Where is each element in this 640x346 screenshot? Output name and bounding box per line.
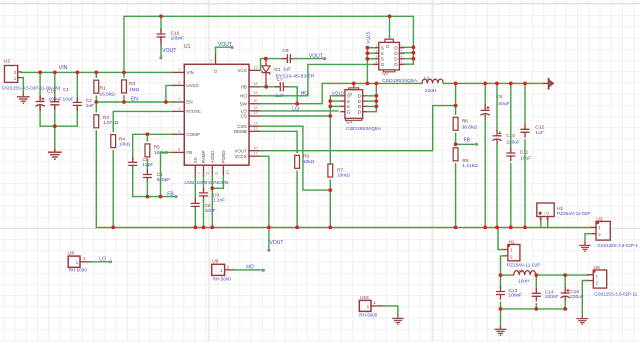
wire H2 pin1 to VOUT rail [498,227,503,249]
wire Q2 drain tab riser [389,16,391,39]
svg-text:FB: FB [464,138,471,144]
wire DEMB net to R6 [261,131,298,152]
junction [210,226,214,230]
svg-text:4: 4 [376,61,378,65]
svg-text:100nF: 100nF [545,294,559,300]
svg-text:2: 2 [376,50,378,54]
capacitor C5 12pF [132,158,134,163]
ground input bus [48,149,62,159]
svg-text:S: S [381,51,384,57]
capacitor C13 100nF [500,275,502,287]
svg-text:560pF: 560pF [157,177,171,183]
svg-text:1MΩ: 1MΩ [129,87,140,93]
junction [159,195,163,199]
svg-text:PZ254V-11-02P: PZ254V-11-02P [557,211,591,216]
capacitor C15 220uF [564,275,566,288]
svg-text:1.07kΩ: 1.07kΩ [103,120,119,126]
svg-text:2: 2 [596,280,599,285]
svg-text:VOUT: VOUT [309,54,323,60]
svg-text:1uF: 1uF [535,130,543,136]
svg-text:D: D [394,62,398,68]
svg-text:HO: HO [240,93,247,98]
svg-text:1: 1 [367,304,370,309]
inductor L2 22uH [422,79,443,83]
junction [295,102,299,106]
junction [495,226,499,230]
port VOUT below rail [268,227,270,250]
wire U3 pin2 to ground [585,234,592,242]
svg-text:1 M: 1 M [543,212,549,216]
svg-text:R2: R2 [103,115,109,121]
junction [375,105,379,109]
junction [94,100,98,104]
wire H1 pins to rail [541,222,548,228]
wire Q2 drain pin connections [404,47,414,64]
svg-text:2: 2 [178,81,180,85]
svg-text:1uF: 1uF [86,103,94,109]
svg-text:D: D [213,70,218,73]
svg-text:5: 5 [401,61,403,65]
junction [159,14,163,18]
junction [164,100,168,104]
transistor Q2 CSD19534Q5A high-side [385,39,393,42]
svg-text:10: 10 [253,146,257,150]
wire CS net to Q1 source bus [261,115,331,117]
svg-text:100uF: 100uF [496,101,510,107]
svg-text:G: G [347,110,351,116]
svg-text:5: 5 [205,172,210,174]
wire C8 to VOUT port [293,58,325,60]
wire COMP net [133,134,174,160]
wire CSG net to R7 bottom [261,126,331,190]
svg-text:U2: U2 [4,59,10,65]
capacitor C8 1uF [283,58,288,60]
svg-text:PGND: PGND [221,151,226,164]
wire VIN riser and top rail to Q2 drain bus [124,16,413,72]
svg-text:R9: R9 [462,158,468,164]
svg-text:1: 1 [376,44,378,48]
junction [454,142,458,146]
ground U3 [579,242,591,251]
junction [499,273,503,277]
port dot [323,57,326,60]
junction [146,195,150,199]
junction [328,105,332,109]
svg-text:2: 2 [598,232,601,237]
junction [483,226,487,230]
svg-text:GS0125S-3.5-02P-11: GS0125S-3.5-02P-11 [594,291,637,296]
svg-text:RH-5000: RH-5000 [359,312,378,317]
svg-text:D: D [358,94,362,100]
svg-text:R5: R5 [154,144,160,150]
wire EN net R1/R2 junction to U1 [96,101,173,103]
svg-text:D: D [385,45,390,48]
wire FB stub with port [456,143,477,145]
svg-text:7: 7 [209,59,214,61]
svg-text:1: 1 [596,273,599,278]
wire stem filter ground [500,309,502,326]
wire SW net [261,83,423,103]
wire C19 input cap drop [39,72,41,126]
svg-text:D: D [348,92,353,95]
connector U5 GS0125S aux [593,270,606,288]
wire Q1 drain tab to SW [353,83,355,88]
svg-text:D: D [358,99,362,105]
junction [366,46,370,50]
capacitor C1 10uF [54,97,56,102]
wire C1 input cap drop [54,72,56,126]
svg-text:10uF: 10uF [63,96,74,102]
inductor U4 10uH [514,271,536,275]
svg-text:FB: FB [167,192,174,198]
svg-text:30.5kΩ: 30.5kΩ [462,125,478,131]
wire input ground bus [40,125,77,127]
junction [267,226,271,230]
port dot [109,260,112,263]
junction [75,71,79,75]
ground U16 [392,315,404,324]
junction [264,57,268,61]
svg-text:U8: U8 [68,250,74,256]
junction [375,99,379,103]
port arrow VOUT output [543,82,548,84]
wire U9 to HO port [235,269,263,271]
wire U1 top pin to VOUT port [216,47,232,54]
junction [388,14,392,18]
junction [202,226,206,230]
junction [366,57,370,61]
svg-text:LM5116MHX/NOPB: LM5116MHX/NOPB [184,180,228,185]
capacitor C3 1.1nF ramp [203,176,205,190]
wire U2 pin1 to ground [21,78,23,94]
junction [495,82,499,86]
svg-text:GS0125S-3.5-02P-11-00A(N): GS0125S-3.5-02P-11-00A(N) [2,85,61,90]
svg-text:3: 3 [178,107,180,111]
svg-text:2: 2 [510,254,513,259]
svg-text:C8: C8 [282,48,288,54]
port dot [267,249,270,252]
svg-text:C1: C1 [63,87,69,93]
svg-text:1: 1 [539,217,541,221]
wire Q1 source bus to R7 [330,96,340,164]
junction [523,82,527,86]
wire L2 output to R8 node [455,83,457,105]
svg-text:R1: R1 [100,85,106,91]
port dot [159,56,162,59]
svg-text:UVLO: UVLO [186,83,199,88]
svg-text:D: D [358,104,362,110]
junction [210,186,214,190]
test point U9 RH-5000 HO [212,264,225,275]
wire RT/SYNC to R4 [113,111,173,131]
junction [454,226,458,230]
capacitor C10 220uF [496,83,498,130]
svg-text:VOUT: VOUT [218,42,232,48]
svg-text:10kΩ: 10kΩ [119,142,131,148]
connector H2 PZ254V-11-02P [508,245,520,261]
junction [328,114,332,118]
wire VCC riser [261,59,285,71]
resistor R2 1.07k [95,102,97,112]
svg-text:SS: SS [193,157,198,163]
capacitor C7 1uF bootstrap [276,86,281,88]
wire HO net to Q2 gate [261,64,377,95]
svg-text:11: 11 [254,127,258,131]
svg-text:100nF: 100nF [171,36,185,42]
junction [509,82,513,86]
test point U8 RH-5000 LO [68,256,80,267]
svg-text:16.5kΩ: 16.5kΩ [100,91,116,97]
junction [509,226,513,230]
svg-text:VOUT: VOUT [270,240,284,246]
svg-text:G: G [381,62,385,68]
junction [412,57,416,61]
svg-text:1: 1 [510,247,513,252]
svg-text:VQ2S: VQ2S [365,31,370,43]
wire VOUT rail after L2 [443,82,543,84]
svg-text:VIN: VIN [186,70,194,75]
wire H2 pin2 to filter [501,256,503,275]
svg-text:D: D [394,46,398,52]
svg-text:SW: SW [240,101,248,106]
junction [328,188,332,192]
svg-text:7: 7 [197,172,202,174]
svg-text:RH-5000: RH-5000 [69,268,88,273]
resistor R6 10k [295,155,300,168]
svg-text:1.1nF: 1.1nF [213,198,225,204]
svg-text:CSD19534Q5A: CSD19534Q5A [382,78,418,83]
capacitor C11 10uF [510,83,512,148]
svg-text:D: D [394,51,398,57]
svg-text:COMP: COMP [186,132,200,137]
svg-text:8: 8 [401,44,403,48]
svg-text:HO: HO [301,91,309,97]
resistor R3 1M [123,72,125,77]
wire U16 to ground [383,306,398,315]
test point U16 RH-5000 ground [359,300,371,311]
wire HB net [261,86,278,88]
wire PGND to AGND [212,176,223,188]
resistor R8 30.5k [455,106,457,115]
junction [352,82,356,86]
svg-text:22uH: 22uH [425,88,437,94]
svg-text:PZ254V-11-02P: PZ254V-11-02P [507,263,541,268]
junction [366,82,370,86]
svg-text:100nF: 100nF [509,293,523,299]
wire VOUT sense from U1 pin 10 to L2 output [261,106,456,151]
junction [122,71,126,75]
resistor R5 160k [146,134,148,141]
junction [264,85,268,89]
junction [454,104,458,108]
junction [94,71,98,75]
svg-text:CSD19534Q5A: CSD19534Q5A [346,126,382,131]
junction [593,270,596,273]
svg-text:C12: C12 [535,125,544,131]
wire Q1 drain bus to SW [367,83,377,111]
svg-text:220uF: 220uF [506,139,520,145]
svg-text:10uH: 10uH [518,278,530,284]
svg-text:RAMP: RAMP [201,150,206,163]
svg-text:20: 20 [253,99,257,103]
svg-text:8: 8 [178,148,180,152]
svg-text:C3: C3 [213,192,219,198]
capacitor C14 100nF [535,275,537,289]
junction [523,226,527,230]
junction [53,71,57,75]
wire VOUT bottom rail [96,226,591,228]
svg-text:HB: HB [241,84,247,89]
junction [375,82,379,86]
svg-text:9: 9 [178,130,180,134]
svg-text:10nF: 10nF [205,208,216,214]
junction [483,82,487,86]
svg-text:10kΩ: 10kΩ [303,159,315,165]
svg-text:VIN: VIN [59,65,68,71]
wire stem to input ground [54,126,56,149]
op-amp U1 LM5116MHX/NOPB controller [184,64,249,165]
wire FB comp bottom bus [133,196,176,198]
diode D1 BYS10-45-83/TR [265,59,267,66]
wire VCCX to VOUT rail [261,156,269,227]
capacitor C9 100uF [484,83,486,105]
transistor Q1 CSD19534Q5A low-side [349,88,359,90]
junction [499,307,503,311]
svg-text:R4: R4 [119,136,125,142]
wire LO net to Q1 gate [261,110,339,112]
svg-text:VCCX: VCCX [234,154,247,159]
port dot [231,46,234,49]
wire U8 to LO port [91,261,110,263]
junction [412,45,416,49]
svg-text:VQ1S: VQ1S [332,91,344,96]
wire Q2 source bus to SW [367,48,374,84]
svg-text:CS: CS [241,114,247,119]
wire UVLO to EN [166,85,173,102]
wire C7 to SW [286,87,297,104]
svg-text:DEMB: DEMB [234,129,247,134]
port dot [262,269,265,272]
capacitor C19 100uF [39,96,41,101]
wire VIN rail from U2 to U1 pin 1 [21,71,173,73]
junction [193,226,197,230]
capacitor C2 1uF [76,98,78,103]
wire U5 pin2 to ground [582,281,587,316]
svg-text:S: S [347,104,350,110]
svg-text:C11: C11 [520,150,529,156]
svg-text:12: 12 [253,111,257,115]
svg-text:Q2: Q2 [382,71,389,77]
svg-text:S: S [381,46,384,52]
svg-text:R3: R3 [129,81,135,87]
svg-text:4: 4 [178,97,180,101]
svg-text:17: 17 [253,151,257,155]
junction [146,132,150,136]
connector U2 GS0125S [5,66,18,83]
port dot [475,143,478,146]
svg-text:6: 6 [401,55,403,59]
junction [563,273,567,277]
svg-text:L2: L2 [424,76,430,82]
wire filter ground bus [501,308,566,310]
capacitor C12 1uF [524,83,526,124]
svg-text:C7: C7 [277,77,283,83]
svg-text:3: 3 [376,55,378,59]
svg-text:7: 7 [401,50,403,54]
svg-text:GS0125S-3.5-02P-1: GS0125S-3.5-02P-1 [597,243,638,248]
svg-text:HO: HO [246,265,254,271]
wire AGND to rail [211,176,213,227]
svg-text:18: 18 [253,82,257,86]
junction [366,51,370,55]
junction [122,100,126,104]
svg-text:13: 13 [253,121,257,125]
svg-text:D: D [358,110,362,116]
svg-text:EN: EN [131,96,138,102]
junction [412,51,416,55]
junction [375,94,379,98]
svg-text:VOUT: VOUT [234,148,247,153]
junction [295,226,299,230]
junction [328,99,332,103]
svg-text:FB: FB [186,150,192,155]
resistor R1 16.5k [95,72,97,77]
wire filter output to U5 [536,274,588,276]
svg-text:1uF: 1uF [283,67,291,73]
svg-text:10mΩ: 10mΩ [337,173,350,179]
svg-text:LO: LO [292,107,299,113]
svg-text:EN: EN [186,100,192,105]
junction [507,244,510,247]
svg-text:U9: U9 [212,258,218,264]
svg-text:U1: U1 [184,44,191,50]
connector H1 PZ254V-11-02P [537,203,554,217]
svg-text:19: 19 [253,91,257,95]
junction [111,226,115,230]
svg-text:RT/SYNC: RT/SYNC [186,109,201,114]
svg-text:D: D [394,57,398,63]
svg-text:VCC: VCC [237,68,247,73]
wire FB riser to U1 pin 8 [161,152,174,196]
wire C2 input cap drop [76,72,78,126]
svg-text:RH-5000: RH-5000 [213,276,232,281]
svg-text:R8: R8 [462,119,468,125]
svg-text:U16: U16 [360,295,369,301]
svg-text:10uF: 10uF [520,156,531,162]
svg-text:LO: LO [99,256,106,262]
svg-text:1: 1 [76,260,79,265]
svg-text:1.21kΩ: 1.21kΩ [462,163,478,169]
svg-text:U4: U4 [517,268,523,274]
svg-text:1: 1 [220,268,223,273]
port dot [174,195,177,198]
svg-text:1: 1 [598,225,601,230]
svg-text:VOUT: VOUT [162,48,177,54]
junction [53,124,57,128]
svg-text:1: 1 [178,68,180,72]
svg-text:6: 6 [214,172,219,174]
capacitor C4 560pF [146,170,148,175]
junction [534,307,538,311]
junction [328,226,332,230]
wire filter input node [501,274,514,276]
svg-text:15: 15 [253,106,257,110]
resistor R4 10k [111,135,116,148]
svg-text:16: 16 [253,66,257,70]
junction [38,71,42,75]
junction [454,82,458,86]
ground filter [495,326,507,335]
